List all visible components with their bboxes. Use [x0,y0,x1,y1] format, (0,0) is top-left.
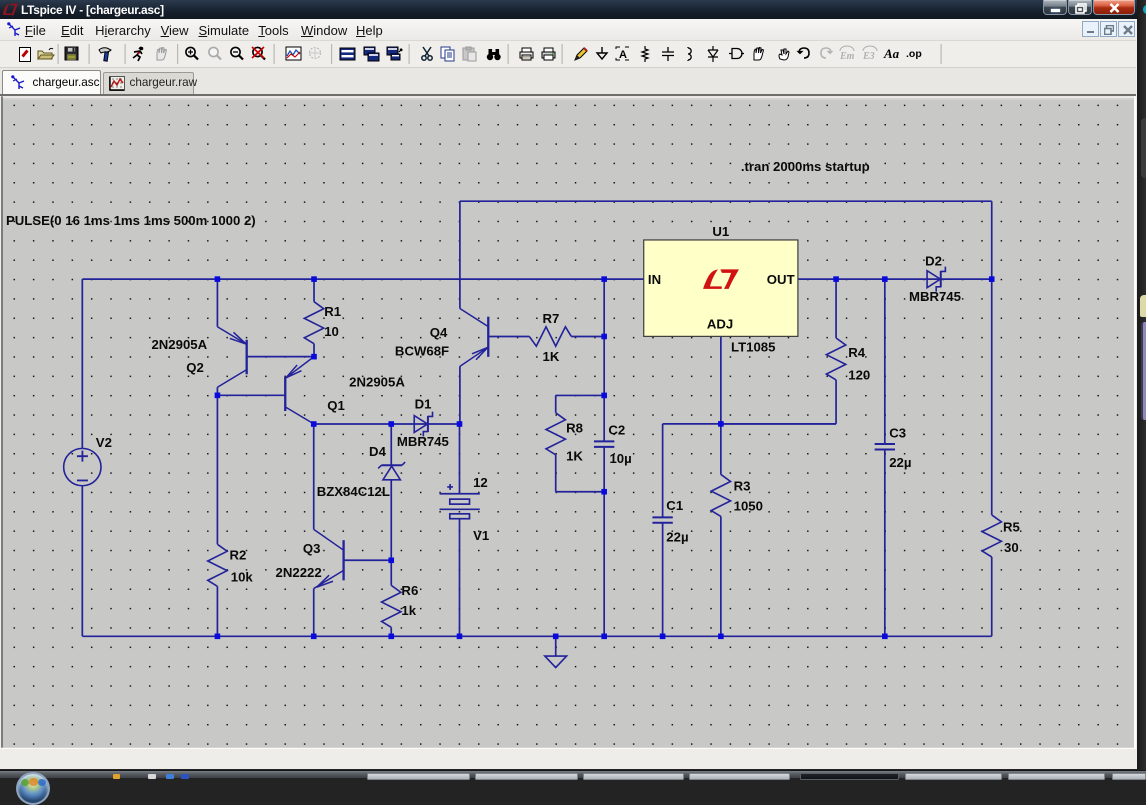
svg-text:Q1: Q1 [327,398,345,413]
app icon LT [2,3,18,16]
junction node (556.2,636.5) [553,634,559,640]
wire V1 bottom [458,519,460,637]
desktop strip on the right [1137,0,1146,778]
resistor R8 [546,413,565,455]
junction node (992.6,279) [989,276,995,282]
wire R8 bottom hook [556,455,604,492]
tab bar [0,68,1136,95]
toolbar icon zoom back (disabled) [209,47,221,59]
svg-text:Q2: Q2 [186,360,204,375]
windows taskbar [0,770,1146,779]
wire node to R6 [390,560,392,585]
wire R4 bottom to ADJ node [721,380,836,424]
svg-text:MBR745: MBR745 [397,434,449,449]
svg-text:12: 12 [473,475,488,490]
ground symbol [555,636,557,656]
toolbar icon capacitor [662,47,674,61]
svg-text:2N2905A: 2N2905A [151,337,207,352]
svg-text:R8: R8 [566,421,583,436]
toolbar icon resistor [642,46,648,62]
wire Q4 collector riser [459,201,461,308]
transistor Q4 BCW68F (NPN) [487,317,489,357]
wire V2 bottom [81,486,83,637]
svg-text:Aa: Aa [883,46,900,61]
wire C1 column [662,424,664,636]
svg-text:2N2222: 2N2222 [276,565,322,580]
junction node (604.7,336.4) [601,334,607,340]
junction node (604.7,395.4) [601,393,607,399]
toolbar [0,41,1136,68]
wire Q3 emitter down [313,589,315,637]
capacitor C1 [652,516,672,518]
svg-text:BZX84C12L: BZX84C12L [317,484,390,499]
junction node (391.6,424) [388,421,394,427]
toolbar icon cut [422,47,432,60]
toolbar icon drag [779,49,789,60]
menu app icon [7,22,22,38]
toolbar icon draw wire [575,48,587,60]
minimize button [1043,0,1067,15]
svg-text:120: 120 [848,368,870,383]
toolbar icon paste (disabled) [463,47,476,61]
svg-text:10: 10 [324,324,339,339]
toolbar icon spice directive .op [906,48,922,60]
junction node (721.5,636.5) [718,634,724,640]
wire D4 node down [390,424,392,465]
wire V1 top [458,424,460,494]
wire R8 top hook [556,395,604,412]
battery V1 [440,493,480,495]
maximize/restore button [1068,0,1092,15]
diode D1 MBR745 [414,416,427,433]
toolbar icon inductor [688,47,691,61]
svg-text:.op: .op [906,48,922,60]
toolbar icon autorange (disabled) [309,47,321,59]
menu bar [0,19,1136,42]
junction node (836.8,279) [833,276,839,282]
toolbar icon print [542,48,555,60]
transistor Q3 2N2222 (NPN) [342,540,344,580]
svg-text:R4: R4 [848,345,866,360]
svg-text:Q4: Q4 [430,325,448,340]
toolbar icon zoom in [186,47,198,59]
svg-text:C3: C3 [889,425,906,440]
toolbar icon diode [708,46,718,62]
status bar [0,748,1136,769]
svg-text:C2: C2 [608,422,625,437]
svg-text:1K: 1K [543,349,560,364]
junction node (885.6,636.5) [882,634,888,640]
svg-text:PULSE(0 16 1ms 1ms 1ms 500m 10: PULSE(0 16 1ms 1ms 1ms 500m 1000 2) [6,213,256,228]
toolbar icon find [487,49,501,60]
wire R3 to ground [720,516,722,636]
svg-text:U1: U1 [712,224,729,239]
wire Q3 base to D4 node [344,559,392,561]
wire Q1/Q3 column [313,424,315,529]
resistor R7 [529,327,571,346]
yellow fragment [1140,295,1146,317]
LT logo [703,269,739,288]
close button [1093,0,1135,15]
junction node (314.3,279) [311,276,317,282]
wire R2 to ground rail [216,586,218,636]
task buttons [367,773,470,780]
svg-text:OUT: OUT [767,272,795,287]
transistor Q1 2N2905A (PNP) [284,377,286,411]
teal dot [1143,5,1146,14]
svg-text:R6: R6 [401,583,418,598]
toolbar icon undo [796,47,809,58]
wire Q4 emitter down [459,366,461,424]
wire OUT rail [798,278,992,280]
inactive tab chargeur.raw [103,72,194,95]
toolbar icon zoom window [387,47,402,60]
wire C2 bottom to ground [603,448,605,637]
wire D4 to Q3 base node [390,480,392,560]
resistor R2 [208,544,227,586]
svg-text:R1: R1 [324,304,341,319]
wire Q2emitter-Q1base [217,394,285,396]
junction node (217.6,636.5) [215,634,221,640]
diode D2 MBR745 [927,271,940,288]
svg-text:30: 30 [1004,540,1019,555]
svg-text:R5: R5 [1003,519,1020,534]
svg-text:1050: 1050 [734,498,763,513]
svg-text:Q3: Q3 [303,541,321,556]
transistor Q2 2N2905A (PNP) [246,340,248,374]
svg-text:10k: 10k [231,569,254,584]
junction node (604.7,491.8) [601,489,607,495]
capacitor C3 [875,443,895,445]
junction node (721.5,423.9) [718,421,724,427]
wire ADJ horizontal [663,423,836,425]
junction node (391.6,560.4) [388,557,394,563]
svg-text:D1: D1 [415,397,432,412]
toolbar icon cascade [364,47,379,61]
svg-text:E3: E3 [862,51,875,62]
resistor R5 [982,515,1001,557]
svg-text:V1: V1 [473,528,489,543]
title bar [0,0,1140,19]
svg-text:2N2905A: 2N2905A [349,375,405,390]
junction node (217.6,395.3) [215,393,221,399]
wire base Q2 / R1 node [247,356,314,358]
toolbar icon view waveform [286,47,301,60]
toolbar icon net label [616,47,629,61]
toolbar icon halt [157,48,167,61]
toolbar icon copy [441,47,454,61]
svg-text:R3: R3 [734,478,751,493]
toolbar icon open [38,48,54,59]
wire right vertical (top wire down to D2 node) [991,201,993,279]
svg-text:22µ: 22µ [666,529,688,544]
svg-text:10µ: 10µ [609,451,631,466]
toolbar icon new schematic [20,48,31,62]
toolbar icon tile [340,48,355,60]
capacitor C2 [594,440,614,442]
MDI restore [1100,21,1117,37]
svg-text:A: A [619,49,627,61]
wire R6 to ground [390,627,392,636]
toolbar icon E3 (disabled) [862,46,877,62]
toolbar icon save [65,47,78,60]
toolbar icon Em (disabled) [839,46,855,62]
svg-text:.tran 2000ms startup: .tran 2000ms startup [741,159,870,174]
MDI minimize [1082,21,1099,37]
zener diode D4 [381,464,402,466]
junction node (459.9,424) [457,421,463,427]
junction node (314.3,356.6) [311,354,317,360]
junction node (314.0,424) [311,421,317,427]
junction node (217.6,279) [215,276,221,282]
start orb [16,772,50,805]
wire R5 to ground rail [991,557,993,636]
MDI close [1118,21,1135,37]
wire Q1 collector node horizontal [314,423,460,425]
junction node (604.7,636.5) [601,634,607,640]
svg-text:MBR745: MBR745 [909,289,961,304]
junction node (314.0,636.5) [311,634,317,640]
toolbar icon text Aa [883,46,900,61]
quick launch icons [113,774,120,779]
regulator U1 LT1085 [644,240,798,336]
toolbar icon component [729,49,744,59]
wire ground rail [82,635,991,637]
resistor R4 [826,338,845,380]
svg-text:1k: 1k [401,603,416,618]
wire IN column top [603,279,605,440]
active tab chargeur.asc [2,70,101,95]
junction node (391.6,636.5) [388,634,394,640]
svg-text:C1: C1 [666,498,683,513]
svg-text:R2: R2 [229,548,246,563]
toolbar icon run [133,47,143,61]
svg-text:LT1085: LT1085 [731,340,775,355]
wire V2 top [81,279,83,448]
toolbar icon zoom full extents [252,47,265,60]
wire R4 top [835,279,837,338]
toolbar icon redo (disabled) [821,47,834,58]
toolbar icon ground flag [597,47,607,59]
toolbar icon zoom out [231,47,243,59]
wire main input rail [82,278,643,280]
toolbar icon move [754,48,764,61]
svg-text:V2: V2 [96,435,112,450]
wire Q2 collector riser [216,279,218,327]
wire C3 column [884,279,886,636]
svg-text:BCW68F: BCW68F [395,344,449,359]
svg-text:Em: Em [839,51,855,62]
svg-text:1K: 1K [566,448,583,463]
svg-text:R7: R7 [543,311,560,326]
voltage source V2 [64,448,101,485]
toolbar icon control panel [99,48,111,61]
wire D2 node to R5 [991,279,993,515]
junction node (604.7,279) [601,276,607,282]
wire top rail from Q4 collector to right side [460,200,992,202]
junction node (459.9,636.5) [457,634,463,640]
wire ADJ column [720,336,722,474]
junction node (885.6,279) [882,276,888,282]
resistor R3 [711,474,730,516]
resistor R6 [382,585,401,627]
toolbar icon print preview [520,48,533,60]
junction node (663.2,636.5) [660,634,666,640]
svg-text:D4: D4 [369,444,387,459]
svg-text:IN: IN [648,272,661,287]
svg-text:22µ: 22µ [889,455,911,470]
wire Q2 emitter to node [216,387,218,395]
resistor R1 [304,302,323,344]
lavender fragment [1141,322,1146,420]
wire node to R2 [216,395,218,544]
svg-text:ADJ: ADJ [707,317,733,332]
svg-text:D2: D2 [925,254,942,269]
